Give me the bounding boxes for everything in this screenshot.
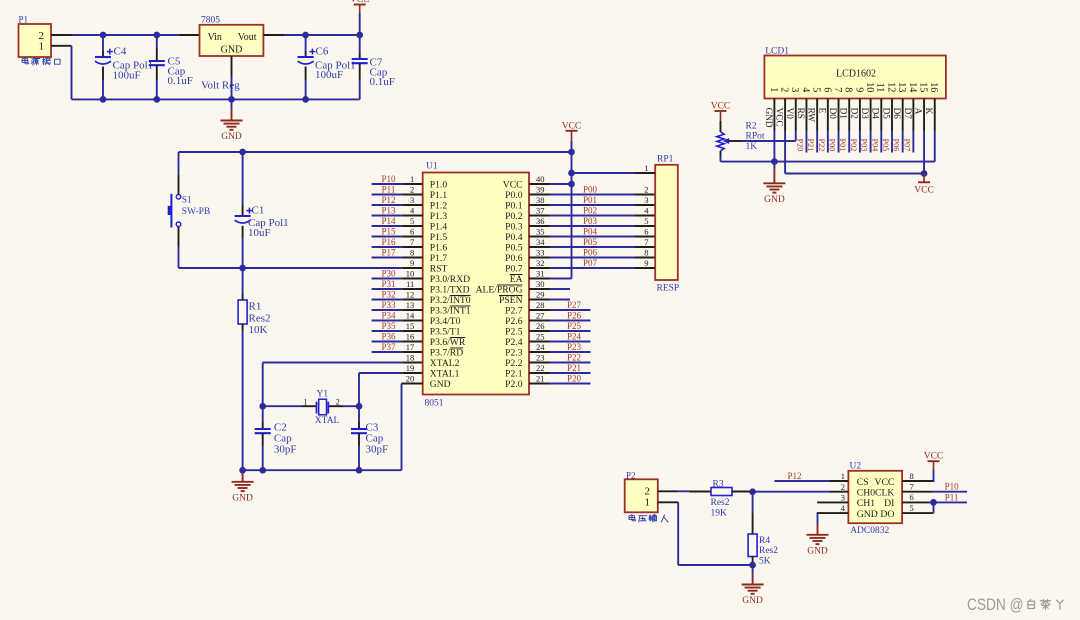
svg-text:36: 36: [536, 216, 545, 226]
svg-text:33: 33: [536, 247, 545, 257]
svg-text:P00: P00: [828, 139, 837, 152]
svg-text:P14: P14: [381, 216, 396, 226]
svg-text:P0.3: P0.3: [505, 222, 523, 233]
svg-text:R4: R4: [759, 536, 770, 546]
svg-text:10: 10: [864, 82, 875, 92]
svg-text:32: 32: [536, 258, 545, 268]
svg-text:1: 1: [39, 41, 45, 53]
svg-text:D5: D5: [881, 108, 891, 120]
svg-text:P27: P27: [567, 300, 582, 310]
svg-text:GND: GND: [764, 108, 774, 128]
svg-text:D1: D1: [839, 108, 849, 120]
svg-text:A: A: [913, 108, 923, 115]
svg-text:1: 1: [841, 471, 845, 481]
svg-text:P0.1: P0.1: [505, 201, 523, 212]
svg-text:8051: 8051: [425, 399, 444, 409]
svg-text:CH0: CH0: [857, 488, 875, 499]
svg-text:VCC: VCC: [711, 102, 731, 112]
svg-text:P2.3: P2.3: [505, 348, 523, 359]
svg-text:5: 5: [410, 216, 414, 226]
svg-text:38: 38: [536, 195, 545, 205]
svg-text:P1.7: P1.7: [430, 253, 448, 264]
svg-text:40: 40: [536, 174, 545, 184]
svg-text:P2.5: P2.5: [505, 327, 523, 338]
svg-text:13: 13: [406, 300, 415, 310]
svg-text:GND: GND: [221, 132, 242, 142]
svg-text:K: K: [924, 108, 934, 115]
svg-text:P1: P1: [19, 14, 29, 24]
svg-text:P26: P26: [567, 310, 582, 320]
svg-text:22: 22: [536, 363, 545, 373]
svg-text:6: 6: [644, 226, 648, 236]
svg-text:S1: S1: [182, 195, 192, 205]
svg-text:3: 3: [644, 195, 648, 205]
svg-text:P2.7: P2.7: [505, 306, 523, 317]
svg-text:RS: RS: [796, 108, 806, 119]
svg-text:P22: P22: [817, 139, 826, 152]
svg-text:P15: P15: [381, 226, 396, 236]
svg-text:P07: P07: [902, 139, 911, 152]
svg-text:15: 15: [406, 321, 415, 331]
svg-text:P01: P01: [583, 195, 597, 205]
svg-text:10: 10: [406, 268, 415, 278]
svg-text:8: 8: [644, 247, 648, 257]
svg-text:GND: GND: [764, 195, 785, 205]
svg-text:P20: P20: [795, 139, 804, 152]
svg-text:P03: P03: [860, 139, 869, 152]
svg-text:5: 5: [910, 503, 914, 513]
svg-text:P3.2/INT0: P3.2/INT0: [430, 295, 471, 306]
svg-text:P35: P35: [381, 321, 396, 331]
svg-text:P02: P02: [583, 205, 597, 215]
svg-text:C4: C4: [114, 46, 127, 58]
svg-text:5K: 5K: [759, 556, 771, 566]
svg-text:C1: C1: [252, 205, 265, 217]
svg-text:P00: P00: [583, 184, 598, 194]
svg-text:8: 8: [410, 247, 414, 257]
svg-text:ADC0832: ADC0832: [850, 526, 889, 536]
svg-text:D6: D6: [892, 108, 902, 120]
svg-text:P0.0: P0.0: [505, 190, 523, 201]
svg-text:4: 4: [800, 87, 811, 92]
svg-text:DI: DI: [884, 498, 894, 509]
svg-text:8: 8: [910, 471, 914, 481]
svg-text:P21: P21: [567, 363, 581, 373]
svg-text:P37: P37: [381, 342, 396, 352]
svg-text:C6: C6: [316, 46, 329, 58]
svg-text:31: 31: [536, 268, 545, 278]
svg-text:P23: P23: [567, 342, 582, 352]
svg-text:P1.6: P1.6: [430, 243, 448, 254]
svg-text:Volt Reg: Volt Reg: [201, 80, 240, 92]
svg-text:P06: P06: [583, 247, 598, 257]
svg-text:VCC: VCC: [874, 477, 894, 488]
svg-text:6: 6: [410, 226, 414, 236]
svg-text:GND: GND: [430, 379, 451, 390]
svg-text:P0.6: P0.6: [505, 253, 523, 264]
svg-text:1K: 1K: [746, 142, 758, 152]
svg-text:9: 9: [853, 87, 864, 92]
svg-text:P21: P21: [806, 139, 815, 152]
svg-text:6: 6: [910, 492, 914, 502]
svg-text:2: 2: [841, 482, 845, 492]
svg-text:GND: GND: [232, 494, 253, 504]
svg-text:R1: R1: [249, 301, 262, 313]
svg-text:RW: RW: [807, 108, 817, 123]
svg-text:Res2: Res2: [249, 313, 271, 325]
svg-text:EA: EA: [510, 274, 523, 285]
svg-text:P0.7: P0.7: [505, 264, 523, 275]
svg-text:8: 8: [843, 87, 854, 92]
svg-text:30: 30: [536, 279, 545, 289]
svg-text:10K: 10K: [249, 324, 268, 336]
svg-text:Vout: Vout: [238, 32, 257, 43]
svg-text:26: 26: [536, 321, 545, 331]
svg-text:30pF: 30pF: [274, 443, 297, 455]
svg-text:P24: P24: [567, 331, 582, 341]
svg-text:P04: P04: [870, 139, 879, 152]
svg-text:Vin: Vin: [208, 32, 222, 43]
svg-text:1: 1: [645, 497, 651, 509]
svg-text:2: 2: [778, 87, 789, 92]
svg-text:9: 9: [644, 258, 648, 268]
svg-text:CLK: CLK: [875, 488, 894, 499]
svg-text:P1.3: P1.3: [430, 211, 448, 222]
svg-text:P05: P05: [881, 139, 890, 152]
svg-text:1: 1: [644, 163, 648, 173]
svg-text:12: 12: [406, 289, 415, 299]
svg-text:20: 20: [406, 373, 415, 383]
svg-text:P2.6: P2.6: [505, 316, 523, 327]
svg-text:17: 17: [406, 342, 415, 352]
svg-text:P3.6/WR: P3.6/WR: [430, 337, 466, 348]
svg-text:1: 1: [410, 174, 414, 184]
svg-text:7: 7: [644, 237, 648, 247]
svg-text:25: 25: [536, 331, 545, 341]
svg-text:7: 7: [832, 87, 843, 92]
svg-text:24: 24: [536, 342, 545, 352]
svg-text:LCD1602: LCD1602: [836, 69, 876, 80]
svg-text:12: 12: [885, 82, 896, 92]
svg-text:14: 14: [907, 82, 918, 92]
svg-text:CH1: CH1: [857, 498, 875, 509]
svg-text:0.1uF: 0.1uF: [370, 76, 395, 88]
svg-text:D0: D0: [828, 108, 838, 120]
svg-text:11: 11: [875, 83, 886, 93]
svg-text:P2.4: P2.4: [505, 337, 523, 348]
svg-text:CSDN @: CSDN @: [967, 596, 1024, 614]
svg-text:7: 7: [410, 237, 414, 247]
svg-text:P0.4: P0.4: [505, 232, 523, 243]
svg-text:5: 5: [644, 216, 648, 226]
svg-text:ALE/PROG: ALE/PROG: [476, 285, 523, 296]
svg-text:RST: RST: [430, 264, 448, 275]
svg-text:13: 13: [896, 82, 907, 92]
svg-text:E: E: [817, 108, 827, 114]
svg-text:39: 39: [536, 184, 545, 194]
svg-text:1: 1: [304, 397, 308, 406]
svg-text:10uF: 10uF: [248, 227, 271, 239]
svg-text:P0.5: P0.5: [505, 243, 523, 254]
svg-text:RP1: RP1: [657, 155, 674, 165]
svg-text:P0.2: P0.2: [505, 211, 523, 222]
svg-text:27: 27: [536, 310, 545, 320]
svg-text:VCC: VCC: [503, 180, 523, 191]
svg-text:6: 6: [821, 87, 832, 92]
svg-text:D3: D3: [860, 108, 870, 120]
svg-text:P33: P33: [381, 300, 396, 310]
svg-text:D4: D4: [871, 108, 881, 120]
svg-text:P17: P17: [381, 247, 396, 257]
svg-text:P06: P06: [892, 139, 901, 152]
svg-text:P12: P12: [381, 195, 395, 205]
svg-text:5: 5: [811, 87, 822, 92]
svg-text:PSEN: PSEN: [499, 295, 523, 306]
svg-text:D2: D2: [849, 108, 859, 120]
svg-text:P1.0: P1.0: [430, 180, 448, 191]
svg-text:11: 11: [406, 279, 414, 289]
svg-text:3: 3: [410, 195, 414, 205]
svg-text:P31: P31: [381, 279, 395, 289]
svg-text:P3.7/RD: P3.7/RD: [430, 348, 463, 359]
svg-text:GND: GND: [857, 509, 878, 520]
svg-text:CS: CS: [857, 477, 869, 488]
svg-text:30pF: 30pF: [366, 443, 389, 455]
svg-text:P2.0: P2.0: [505, 379, 523, 390]
svg-text:XTAL1: XTAL1: [430, 369, 460, 380]
svg-text:P32: P32: [381, 289, 395, 299]
svg-text:9: 9: [410, 258, 414, 268]
svg-text:P2: P2: [626, 470, 636, 480]
svg-text:RESP: RESP: [657, 284, 680, 294]
svg-text:35: 35: [536, 226, 545, 236]
svg-text:Res2: Res2: [711, 498, 730, 508]
svg-text:P3.4/T0: P3.4/T0: [430, 316, 461, 327]
svg-text:XTAL2: XTAL2: [430, 358, 460, 369]
svg-text:P3.1/TXD: P3.1/TXD: [430, 285, 470, 296]
svg-text:P07: P07: [583, 258, 598, 268]
svg-text:100uF: 100uF: [315, 69, 343, 81]
svg-text:14: 14: [406, 310, 415, 320]
svg-text:100uF: 100uF: [113, 69, 141, 81]
svg-text:V0: V0: [785, 108, 795, 120]
svg-text:Res2: Res2: [759, 546, 778, 556]
svg-text:P2.1: P2.1: [505, 369, 523, 380]
svg-text:P05: P05: [583, 237, 598, 247]
svg-text:P11: P11: [945, 492, 959, 502]
svg-text:P01: P01: [838, 139, 847, 152]
svg-text:GND: GND: [742, 596, 763, 606]
svg-text:GND: GND: [221, 45, 243, 56]
svg-text:P3.0/RXD: P3.0/RXD: [430, 274, 470, 285]
svg-text:P3.3/INT1: P3.3/INT1: [430, 306, 471, 317]
svg-text:Y1: Y1: [317, 389, 329, 399]
svg-text:16: 16: [928, 82, 939, 92]
svg-text:0.1uF: 0.1uF: [168, 75, 193, 87]
svg-text:29: 29: [536, 289, 545, 299]
svg-text:P2.2: P2.2: [505, 358, 523, 369]
svg-text:U1: U1: [426, 162, 438, 172]
svg-text:SW-PB: SW-PB: [182, 207, 211, 217]
svg-text:R2: R2: [746, 122, 757, 132]
svg-text:P12: P12: [787, 471, 801, 481]
svg-text:19: 19: [406, 363, 415, 373]
svg-text:VCC: VCC: [774, 108, 784, 127]
svg-text:4: 4: [410, 205, 415, 215]
svg-text:P1.4: P1.4: [430, 222, 448, 233]
svg-text:P02: P02: [849, 139, 858, 152]
svg-text:2: 2: [410, 184, 414, 194]
svg-text:19K: 19K: [711, 509, 728, 519]
svg-text:2: 2: [336, 397, 340, 406]
svg-text:P13: P13: [381, 205, 396, 215]
svg-text:2: 2: [644, 184, 648, 194]
svg-text:VCC: VCC: [562, 121, 582, 131]
svg-text:7: 7: [910, 482, 914, 492]
svg-text:23: 23: [536, 352, 545, 362]
svg-text:P34: P34: [381, 310, 396, 320]
svg-text:7805: 7805: [201, 16, 220, 26]
svg-text:P04: P04: [583, 226, 598, 236]
svg-text:3: 3: [841, 493, 845, 503]
svg-text:21: 21: [536, 373, 545, 383]
svg-text:P25: P25: [567, 321, 582, 331]
svg-text:P03: P03: [583, 216, 598, 226]
svg-text:P10: P10: [381, 174, 396, 184]
svg-text:P3.5/T1: P3.5/T1: [430, 327, 461, 338]
svg-text:18: 18: [406, 352, 415, 362]
svg-text:P1.1: P1.1: [430, 190, 448, 201]
svg-text:16: 16: [406, 331, 415, 341]
svg-text:28: 28: [536, 300, 545, 310]
svg-text:P1.2: P1.2: [430, 201, 448, 212]
svg-text:U2: U2: [850, 461, 862, 471]
svg-text:D7: D7: [903, 108, 913, 120]
svg-text:VCC: VCC: [350, 0, 370, 5]
svg-text:P20: P20: [567, 373, 582, 383]
svg-text:37: 37: [536, 205, 545, 215]
svg-text:VCC: VCC: [924, 452, 944, 462]
svg-text:P10: P10: [945, 482, 960, 492]
svg-text:P11: P11: [382, 184, 396, 194]
svg-text:P1.5: P1.5: [430, 232, 448, 243]
svg-text:P30: P30: [381, 268, 396, 278]
svg-text:P16: P16: [381, 237, 396, 247]
svg-text:XTAL: XTAL: [315, 416, 340, 426]
svg-text:R3: R3: [713, 480, 724, 490]
svg-text:15: 15: [917, 82, 928, 92]
svg-text:VCC: VCC: [914, 185, 934, 195]
svg-text:3: 3: [789, 87, 800, 92]
svg-text:1: 1: [768, 87, 779, 92]
svg-text:RPot: RPot: [746, 132, 765, 142]
svg-text:GND: GND: [807, 547, 828, 557]
svg-text:34: 34: [536, 237, 545, 247]
svg-text:P22: P22: [567, 352, 581, 362]
svg-text:LCD1: LCD1: [765, 47, 789, 57]
svg-text:P36: P36: [381, 331, 396, 341]
svg-text:DO: DO: [880, 509, 894, 520]
